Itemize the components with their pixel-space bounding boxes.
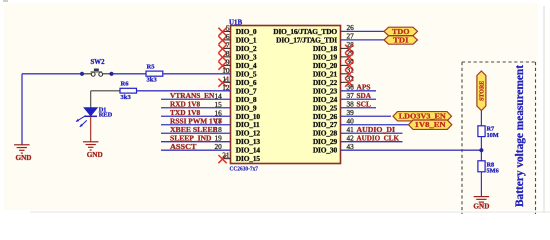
svg-text:TDO: TDO xyxy=(392,28,410,36)
svg-text:GND: GND xyxy=(473,203,489,211)
svg-text:5M6: 5M6 xyxy=(487,168,499,175)
svg-text:CC2630-7x7: CC2630-7x7 xyxy=(230,166,259,172)
svg-text:SDA: SDA xyxy=(357,92,372,100)
svg-text:RXD 1V8: RXD 1V8 xyxy=(170,100,201,108)
svg-text:3k3: 3k3 xyxy=(147,77,158,84)
svg-text:Battery voltage measurement: Battery voltage measurement xyxy=(514,65,526,207)
svg-text:ASSCT: ASSCT xyxy=(170,143,197,151)
svg-text:R6: R6 xyxy=(121,80,130,87)
svg-text:DIO_30: DIO_30 xyxy=(313,146,338,155)
svg-text:20: 20 xyxy=(215,142,223,151)
svg-text:GND: GND xyxy=(16,154,32,162)
svg-text:21: 21 xyxy=(222,151,230,160)
svg-text:TXD 1V8: TXD 1V8 xyxy=(170,109,201,117)
svg-text:GND: GND xyxy=(87,151,103,159)
svg-text:AUDIO_DI: AUDIO_DI xyxy=(357,126,396,134)
svg-text:SW2: SW2 xyxy=(91,59,106,66)
svg-text:R5: R5 xyxy=(147,64,156,71)
svg-text:AUDIO_CLK: AUDIO_CLK xyxy=(357,134,400,142)
svg-text:TDI: TDI xyxy=(393,36,409,44)
svg-text:1V8_EN: 1V8_EN xyxy=(415,121,446,129)
svg-text:STORE: STORE xyxy=(480,81,486,101)
svg-text:RED: RED xyxy=(99,112,113,119)
svg-text:DIO_15: DIO_15 xyxy=(236,154,261,163)
svg-text:XBEE SLEEP: XBEE SLEEP xyxy=(170,126,218,134)
svg-text:SLEEP_IND: SLEEP_IND xyxy=(170,134,212,142)
svg-text:VTRANS_EN: VTRANS_EN xyxy=(170,92,214,100)
svg-text:APS: APS xyxy=(357,83,371,91)
svg-text:10M: 10M xyxy=(487,132,499,139)
svg-text:3k3: 3k3 xyxy=(121,94,132,101)
svg-text:U1B: U1B xyxy=(229,18,243,26)
svg-text:SCL: SCL xyxy=(357,100,372,108)
